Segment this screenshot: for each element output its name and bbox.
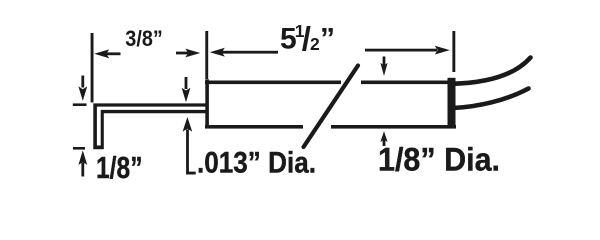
lead wire top [453,58,531,84]
dimension 5 1/2" arrow left [210,48,278,57]
svg-text:1/8”: 1/8” [96,150,143,185]
svg-text:3/8”: 3/8” [125,26,163,51]
svg-text:1/8” Dia.: 1/8” Dia. [378,142,500,178]
leg dimension 1/8" arrow up [78,150,87,176]
body dia dimension arrow down [380,57,387,77]
dimension 3/8" extension line left [91,33,94,103]
leg dimension 1/8" tick bottom [73,147,85,150]
body (ceramic insulator cylinder) [205,78,456,129]
svg-text:.013” Dia.: .013” Dia. [197,147,316,180]
lead wire bottom [453,89,529,109]
leg dimension 1/8" tick top [73,103,87,106]
wire (.013 electrode, L-bend) [93,103,206,149]
wire dia dimension arrow down [182,77,191,102]
dimension 5 1/2" arrow right [365,46,450,55]
svg-text:”: ” [320,23,335,56]
leader line diagonal (.013 Dia.) [304,66,359,148]
label 5 1/2" [280,20,335,57]
leg dimension 1/8" arrow down [78,76,87,101]
wire dia leader arrow up [183,117,196,175]
dimension 3/8" arrow right [176,49,200,58]
dimension 5 1/2" extension line right [452,31,455,72]
dimension 3/8" arrow left [94,49,120,58]
dimension 3/8" extension line right [205,31,208,79]
svg-text:2: 2 [310,34,320,54]
body dia dimension arrow up [380,131,387,146]
